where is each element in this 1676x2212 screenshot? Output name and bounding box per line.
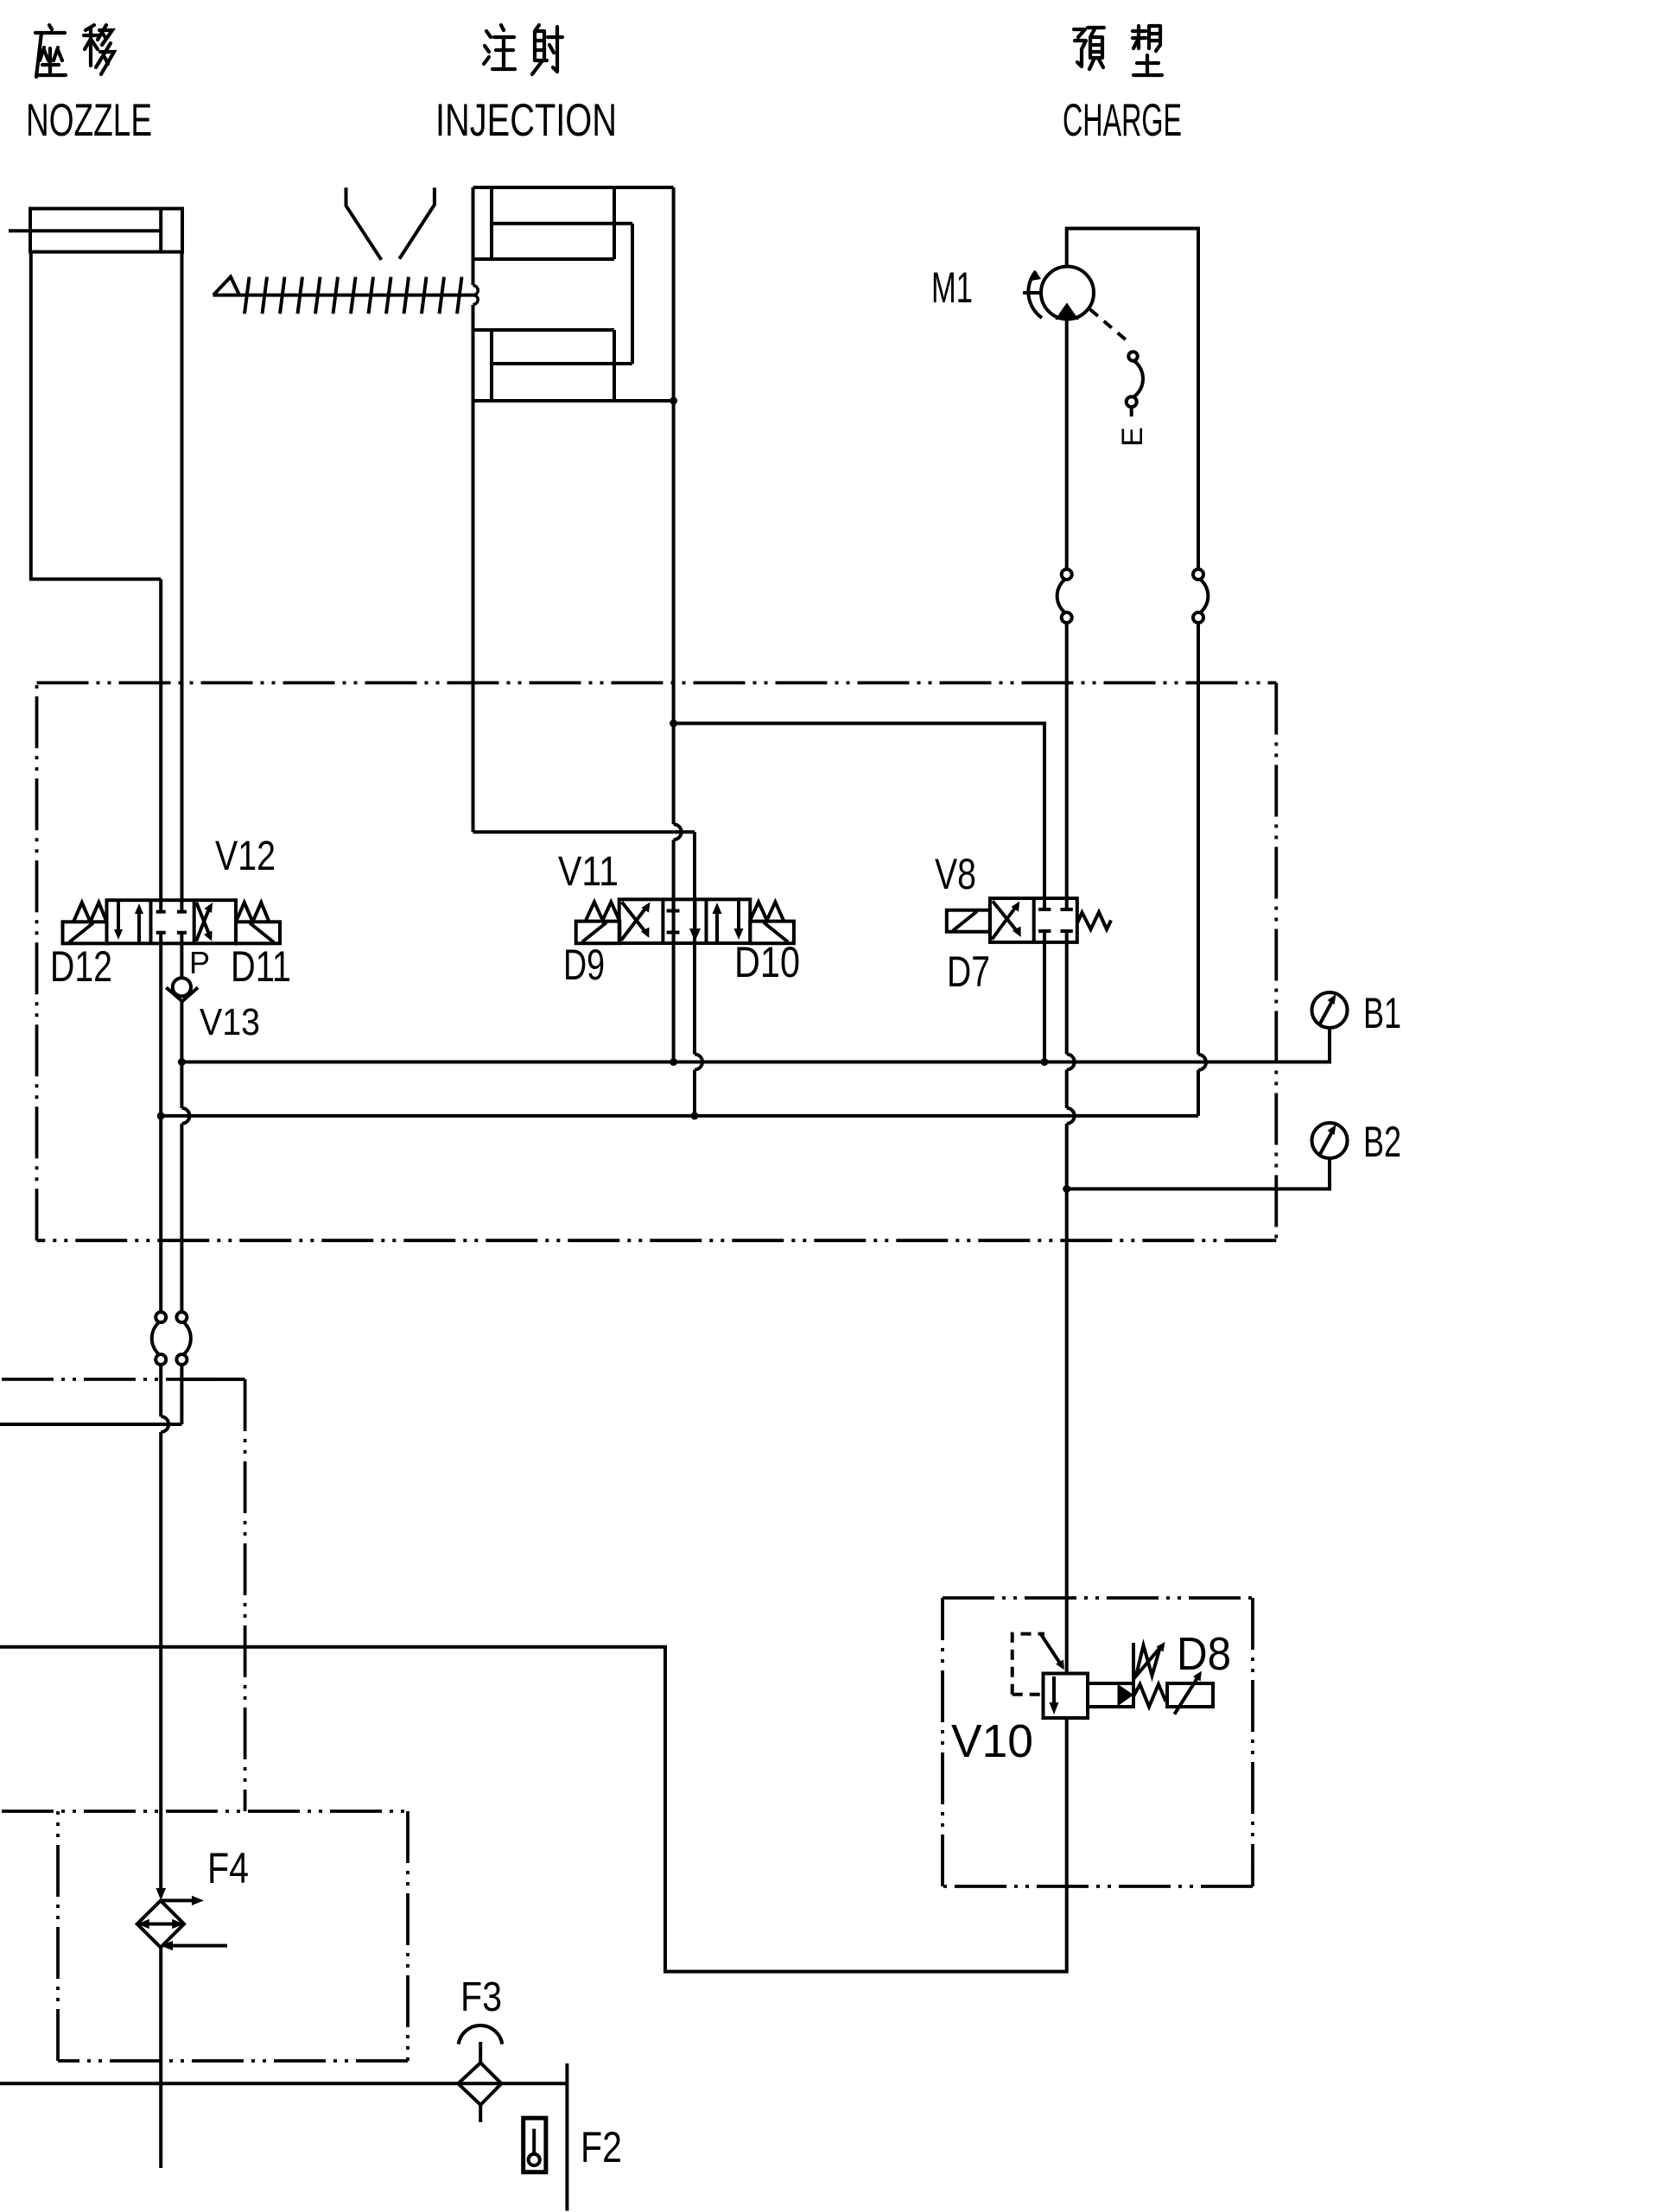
- V12 center blocked ports: [156, 900, 187, 911]
- svg-text:V11: V11: [558, 849, 619, 895]
- label 座移 (char 移): [84, 25, 114, 74]
- injection cylinder inner verticals: [492, 187, 632, 401]
- V10 adjust solenoid box: [1167, 1683, 1213, 1707]
- switch E stub: [1130, 408, 1133, 417]
- F4 bottom return arrow: [168, 1944, 227, 1948]
- wire pump outlet down to union: [1065, 320, 1069, 570]
- screw centerline: [213, 294, 475, 297]
- label 注射 (char 注): [484, 25, 515, 69]
- svg-text:D11: D11: [231, 942, 291, 991]
- nozzle cylinder body: [31, 252, 161, 580]
- union left wire (circles+arc): [156, 1312, 166, 1322]
- switch E upper contact circle: [1128, 352, 1137, 360]
- V11 right solenoid D10: [750, 922, 794, 944]
- svg-text:NOZZLE: NOZZLE: [26, 95, 152, 146]
- V11 left solenoid D9: [576, 922, 620, 944]
- wire right column below union (hops line1, corner into line2): [1198, 623, 1206, 1116]
- V11 right position arrows: [715, 908, 719, 943]
- wire tank suction rail: [0, 2082, 567, 2085]
- V12 right position crossed arrows: [196, 906, 211, 941]
- injection cylinder left wall with screw notch: [472, 187, 475, 285]
- lower-left boundary dash-dot: [2, 1379, 245, 1811]
- svg-text:M1: M1: [931, 263, 973, 312]
- svg-text:E: E: [1116, 427, 1149, 447]
- V8 solenoid D7: [947, 910, 990, 932]
- svg-text:P: P: [189, 945, 210, 980]
- svg-text:V10: V10: [951, 1715, 1033, 1767]
- pump flow triangle: [1055, 302, 1078, 320]
- union right wire (circles+arc): [176, 1312, 187, 1322]
- V8 right spring: [1077, 912, 1111, 929]
- V12 right solenoid D11: [236, 922, 280, 943]
- svg-text:D12: D12: [50, 942, 112, 991]
- injection cylinder inner lines: [473, 224, 633, 364]
- svg-text:B2: B2: [1363, 1118, 1401, 1166]
- wire off-page left at tank rail: [0, 1423, 181, 1426]
- pump shaft tick: [1023, 291, 1041, 295]
- F3 bottom stub: [479, 2105, 482, 2122]
- wire F4 down to tank: [159, 1948, 162, 2168]
- F4 boundary box: [2, 1811, 408, 2061]
- injection cylinder piston bottom line: [473, 399, 674, 402]
- union right column (circles+arc): [1193, 569, 1203, 580]
- wire injection rod-side port down (hops line1, ends line2): [695, 832, 702, 1116]
- injection cylinder lower body bottom: [473, 830, 695, 833]
- wire V8 right leg down to V10 (hops line1,line2; node line3): [1067, 942, 1075, 1674]
- F3 stub: [479, 2042, 482, 2063]
- svg-text:F4: F4: [207, 1844, 249, 1892]
- wire V8 left leg to line1: [1043, 942, 1046, 1062]
- F3 breather arc: [459, 2025, 503, 2044]
- V10 pilot arrow: [1041, 1634, 1062, 1665]
- wire tank right edge: [565, 2063, 568, 2211]
- switch E arc: [1134, 361, 1143, 396]
- wire left down (hops cross line) to F4: [161, 1365, 168, 1897]
- wire right wire lower stub to off-page corner: [180, 1379, 183, 1424]
- gauge B1: [1312, 992, 1348, 1028]
- pump rotation arrowhead: [1032, 271, 1042, 281]
- V11 left spring: [586, 902, 619, 920]
- node injection right wire at V8 feed: [670, 719, 677, 727]
- filter F3 diamond: [458, 2063, 501, 2105]
- union left column (circles+arc): [1062, 569, 1072, 580]
- node line3 start: [1063, 1185, 1070, 1193]
- label 预塑 (char 塑): [1133, 26, 1162, 75]
- svg-text:V12: V12: [215, 833, 276, 879]
- nozzle piston: [159, 209, 162, 252]
- pump rotation arc: [1028, 271, 1042, 318]
- level gauge F2: [524, 2118, 546, 2172]
- V11 center P blocked port: [667, 899, 680, 910]
- V12 left spring: [73, 903, 107, 922]
- V10 adjust arrow through box: [1174, 1676, 1199, 1714]
- node left wire at line2: [157, 1112, 165, 1119]
- nozzle piston rod: [9, 229, 161, 232]
- V8 left position crossed arrows: [992, 904, 1018, 940]
- svg-text:V13: V13: [200, 1001, 260, 1043]
- wire left pair down from rails to unions: [159, 1116, 162, 1312]
- screw thread hatching: [244, 277, 462, 314]
- wire V12 P port down through V13: [180, 943, 183, 1062]
- V12 left solenoid D12: [63, 922, 107, 943]
- svg-text:D10: D10: [734, 938, 800, 986]
- label 预塑 (char 预): [1074, 28, 1104, 69]
- V10 internal flow arrow: [1052, 1676, 1056, 1708]
- check valve V13 circle: [173, 978, 191, 996]
- valve V12 body: [107, 900, 237, 943]
- node P wire at line1: [178, 1058, 186, 1066]
- wire line2 (tank rail): [161, 1114, 1198, 1118]
- label 座移 (char 座): [35, 25, 66, 77]
- node rod-side wire at line2: [691, 1112, 699, 1119]
- V10 solenoid force triangle: [1118, 1684, 1134, 1707]
- svg-text:INJECTION: INJECTION: [435, 95, 617, 146]
- valve V10 body square: [1044, 1674, 1089, 1719]
- wire nozzle left port down to V12: [159, 580, 162, 901]
- wire line3 (charge rail) to B2: [1067, 1158, 1330, 1189]
- wire V12 left port down to line2: [159, 943, 162, 1116]
- wire line1 (P rail) to B1: [181, 1028, 1330, 1062]
- nozzle cylinder cap rect: [30, 209, 182, 252]
- screw tip triangle: [213, 277, 239, 295]
- svg-text:CHARGE: CHARGE: [1063, 95, 1182, 146]
- D8 proportional zigzag with arrow: [1136, 1645, 1161, 1676]
- svg-text:F2: F2: [581, 2123, 622, 2171]
- wire right to boundary corner: [181, 1365, 244, 1379]
- wire V8 feed from injection node: [674, 724, 1044, 899]
- V12 right spring: [236, 903, 270, 922]
- wire V10 outlet return loop: [0, 1647, 1067, 1972]
- svg-text:D9: D9: [563, 941, 605, 989]
- F4 middle double arrow: [143, 1923, 179, 1926]
- valve V11 body: [619, 899, 751, 943]
- manifold boundary frame: [37, 683, 1277, 1241]
- svg-text:F3: F3: [460, 1974, 502, 2020]
- V11 left position crossed arrows: [621, 905, 648, 941]
- V11 center A-to-T arrow: [693, 899, 696, 933]
- node on injection right edge: [670, 397, 677, 405]
- V10 armature rect: [1088, 1683, 1133, 1707]
- svg-text:D7: D7: [947, 948, 990, 996]
- V12 left position arrows: [117, 900, 120, 935]
- filter F4 diamond: [137, 1900, 184, 1947]
- F4 inlet arrowhead: [156, 1888, 167, 1900]
- F4 top bypass arrow: [161, 1898, 197, 1902]
- svg-text:V8: V8: [935, 850, 976, 898]
- valve V8 body: [990, 898, 1077, 942]
- gauge B2: [1312, 1123, 1348, 1158]
- V10 spring: [1133, 1684, 1166, 1707]
- pump M1 circle: [1041, 267, 1094, 320]
- svg-text:B1: B1: [1363, 989, 1401, 1037]
- V10 divider line: [1132, 1643, 1135, 1683]
- node injection right wire at line1: [670, 1058, 677, 1066]
- V8 right position blocked ports (dashes): [1038, 898, 1073, 910]
- wire injection right edge down (hops body bottom) to line1: [674, 187, 682, 1062]
- V10 boundary box: [943, 1598, 1253, 1886]
- hopper: [346, 187, 435, 259]
- wire pump top loop: [1067, 229, 1198, 570]
- V10 pilot dashed box: [1013, 1634, 1044, 1695]
- svg-text:D8: D8: [1177, 1628, 1231, 1680]
- V11 right spring: [750, 902, 784, 920]
- injection cylinder top: [473, 186, 674, 189]
- wire nozzle right port down to V12: [181, 252, 184, 901]
- wire pump column below union: [1065, 623, 1069, 898]
- label 注射 (char 射): [532, 25, 562, 74]
- check valve V13 seat: [166, 987, 198, 1001]
- dashed drive link to switch E: [1090, 309, 1132, 345]
- switch E lower contact circle: [1127, 396, 1137, 407]
- node line1 at V8 left leg: [1041, 1058, 1049, 1066]
